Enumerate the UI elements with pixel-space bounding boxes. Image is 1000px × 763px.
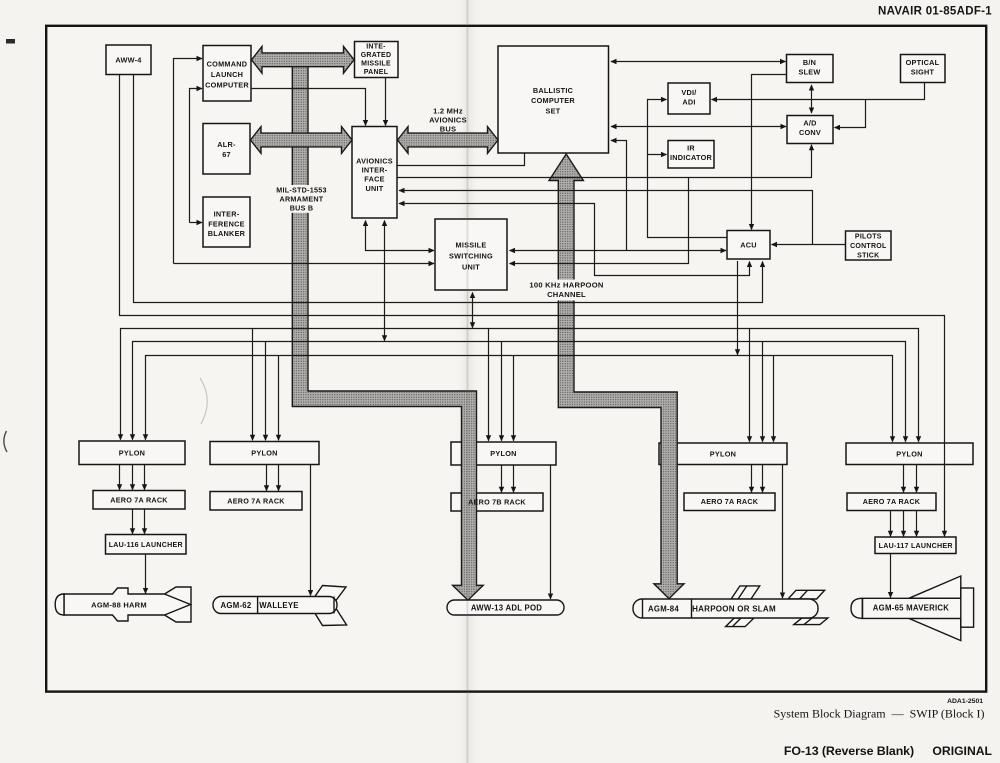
svg-text:CONV: CONV <box>799 128 821 137</box>
wire pylon4 to AGM-84 <box>782 465 784 598</box>
fold crease overlay <box>467 0 469 763</box>
wire L4 drop pylon3 <box>501 342 503 441</box>
wire VDI/ADI feed down to ACU left <box>648 100 728 238</box>
svg-text:NAVAIR 01-85ADF-1: NAVAIR 01-85ADF-1 <box>878 6 992 18</box>
svg-text:BUS B: BUS B <box>290 204 314 213</box>
svg-text:COMPUTER: COMPUTER <box>531 96 575 105</box>
svg-text:CHANNEL: CHANNEL <box>547 290 586 299</box>
wire BCS to A/D CONV <box>611 126 786 128</box>
bus 100 KHz HARPOON CHANNEL (BCS down, elbow to AGM-84) <box>549 154 684 599</box>
wire L5 drop pylon3 <box>513 356 515 441</box>
wire L4 pylon line <box>133 342 906 442</box>
svg-text:AERO 7A RACK: AERO 7A RACK <box>110 496 168 505</box>
svg-text:STICK: STICK <box>857 253 879 260</box>
svg-text:100 KHz HARPOON: 100 KHz HARPOON <box>529 281 603 290</box>
missile AGM-62 WALLEYE <box>213 586 347 626</box>
bus label gap 100 KHz HARPOON <box>557 280 575 301</box>
svg-text:FERENCE: FERENCE <box>208 219 245 228</box>
svg-text:COMPUTER: COMPUTER <box>205 81 249 90</box>
svg-text:PILOTS: PILOTS <box>855 234 882 241</box>
svg-text:ARMAMENT: ARMAMENT <box>280 195 324 204</box>
box INTERFERENCE BLANKER <box>203 197 250 247</box>
wire L3 drop pylon3 <box>488 329 490 441</box>
bus ALR-67 to AVIONICS INTERFACE UNIT <box>251 127 353 154</box>
wire B/N SLEW feed to ACU top <box>752 75 787 230</box>
bus CLC to INTEGRATED MISSILE PANEL (MIL-STD-1553 horizontal top) <box>252 46 355 73</box>
wire PCS junction to AIU <box>399 191 813 245</box>
wire L3 pylon line <box>121 329 919 442</box>
svg-text:COMMAND: COMMAND <box>207 60 248 69</box>
wire pylon2 to rack2 <box>266 465 268 491</box>
svg-text:AVIONICS: AVIONICS <box>429 116 467 125</box>
svg-text:OPTICAL: OPTICAL <box>906 58 940 67</box>
box INTEGRATED MISSILE PANEL <box>355 42 399 78</box>
svg-text:BLANKER: BLANKER <box>208 229 246 238</box>
wire LAU-116 to AGM-88 <box>145 555 147 594</box>
svg-text:LAU-116 LAUNCHER: LAU-116 LAUNCHER <box>109 541 183 549</box>
wire B/N SLEW to A/D CONV (double arrow) <box>811 85 813 113</box>
svg-text:BUS: BUS <box>440 124 457 133</box>
wire AIU to A/D CONV bottom <box>398 145 812 178</box>
svg-text:UNIT: UNIT <box>462 263 480 272</box>
box ACU <box>727 231 770 260</box>
svg-text:SIGHT: SIGHT <box>911 68 935 77</box>
svg-text:1.2 MHz: 1.2 MHz <box>433 107 463 116</box>
svg-text:INTER-: INTER- <box>362 166 388 175</box>
wire pylon4 to rack4 <box>751 465 753 492</box>
svg-text:MIL-STD-1553: MIL-STD-1553 <box>276 186 327 195</box>
svg-text:SWITCHING: SWITCHING <box>449 252 493 261</box>
svg-text:ADA1-2501: ADA1-2501 <box>947 698 983 705</box>
wire to CLC and MSU (vertical x=173) <box>174 59 203 264</box>
pod AWW-13 ADL POD <box>447 600 564 615</box>
bus 1.2 MHz AVIONICS BUS (AIU to BCS) <box>398 127 499 154</box>
wire L4 drop pylon2 <box>265 342 267 441</box>
box AERO 7A RACK 2 <box>210 492 302 511</box>
wire OPTICAL SIGHT to VDI/ADI <box>712 83 925 100</box>
wire L3 drop pylon4 <box>749 329 751 442</box>
wire L4 drop pylon4 <box>762 342 764 442</box>
wire to CLC (lower) and INTERFERENCE BLANKER <box>190 89 203 223</box>
missile AGM-88 HARM <box>55 587 191 622</box>
svg-text:HARPOON OR SLAM: HARPOON OR SLAM <box>692 605 776 614</box>
wire rack1 to LAU-116 (2 arrows) <box>132 510 134 534</box>
wire AIU to ACU bottom via 594 <box>399 204 750 276</box>
svg-text:PYLON: PYLON <box>119 449 145 458</box>
wire L2 AWW-4 left leg to LAU-117 <box>120 75 945 537</box>
svg-text:B/N: B/N <box>803 58 816 67</box>
svg-text:IR: IR <box>687 144 695 153</box>
wire pylon2 to AGM-62 WALLEYE <box>310 465 312 596</box>
bus MIL-STD-1553 ARMAMENT BUS B (vertical, elbow to AWW-13 ADL POD) <box>292 62 483 600</box>
svg-text:ORIGINAL: ORIGINAL <box>932 744 992 758</box>
svg-text:ACU: ACU <box>740 241 757 250</box>
svg-text:AGM-62: AGM-62 <box>221 601 252 610</box>
svg-text:INTE-: INTE- <box>366 44 386 51</box>
svg-text:SET: SET <box>546 107 561 116</box>
fold line / page crease <box>455 0 481 763</box>
scan artifact marks at left edge <box>6 39 15 44</box>
box B/N SLEW <box>787 55 834 83</box>
box AWW-4 <box>106 45 151 75</box>
box BALLISTIC COMPUTER SET <box>498 46 609 153</box>
box PYLON 3 <box>451 442 556 465</box>
wire AIU bottom left to MSU <box>366 221 435 251</box>
svg-text:MISSILE: MISSILE <box>456 241 487 250</box>
bus label gap MIL-STD-1553 <box>291 185 309 213</box>
svg-text:PYLON: PYLON <box>710 450 736 459</box>
wire MSU right lower up to AIU line <box>510 178 689 264</box>
wire MSU bottom double arrow <box>472 293 474 328</box>
svg-text:UNIT: UNIT <box>365 184 383 193</box>
wire L5 drop pylon2 <box>278 356 280 441</box>
wire LAU-117 to AGM-65 <box>890 554 892 598</box>
svg-text:ADI: ADI <box>682 98 695 107</box>
wire IMP bottom to AIU top <box>385 78 387 126</box>
box PYLON 4 <box>659 443 787 465</box>
svg-text:FO-13 (Reverse Blank): FO-13 (Reverse Blank) <box>784 744 914 758</box>
box OPTICAL SIGHT <box>901 55 946 83</box>
missile AGM-65 MAVERICK <box>851 576 974 641</box>
box AERO 7A RACK 1 <box>93 491 185 510</box>
missile AGM-84 HARPOON OR SLAM <box>633 586 828 627</box>
svg-text:67: 67 <box>222 150 231 159</box>
svg-text:GRATED: GRATED <box>361 52 392 59</box>
wire BCS to MSU right upper <box>611 141 627 251</box>
svg-text:AERO 7A RACK: AERO 7A RACK <box>701 497 759 506</box>
wire L3 drop pylon2 <box>252 329 254 441</box>
box PYLON 1 <box>79 441 185 465</box>
box AERO 7A RACK 4 <box>684 493 775 511</box>
svg-text:CONTROL: CONTROL <box>850 243 887 250</box>
box IR INDICATOR <box>668 141 714 169</box>
svg-text:AWW-4: AWW-4 <box>115 56 142 65</box>
svg-text:AWW-13 ADL POD: AWW-13 ADL POD <box>471 604 542 613</box>
box VDI/ADI <box>668 83 710 114</box>
box LAU-117 LAUNCHER <box>875 537 956 554</box>
svg-text:AGM-84: AGM-84 <box>648 605 679 614</box>
svg-text:AGM-88 HARM: AGM-88 HARM <box>91 601 147 610</box>
svg-text:AGM-65 MAVERICK: AGM-65 MAVERICK <box>873 604 950 613</box>
wire BCS bottom to AIU right (no arrows) <box>398 153 525 166</box>
svg-text:PANEL: PANEL <box>364 69 389 76</box>
svg-text:BALLISTIC: BALLISTIC <box>533 86 574 95</box>
scan artifact arc <box>200 378 207 424</box>
wire AIU bottom right down to L4 <box>384 221 386 341</box>
svg-text:INTER-: INTER- <box>214 210 240 219</box>
box LAU-116 LAUNCHER <box>106 535 187 555</box>
wire rack5 to LAU-117 (3 arrows) <box>890 511 892 536</box>
wire MSU to ACU <box>510 250 727 252</box>
box A/D CONV <box>787 116 833 144</box>
box PILOTS CONTROL STICK <box>846 231 892 260</box>
box COMMAND LAUNCH COMPUTER <box>203 46 251 102</box>
box PYLON 2 <box>210 442 319 465</box>
svg-text:LAUNCH: LAUNCH <box>211 70 243 79</box>
svg-text:AVIONICS: AVIONICS <box>356 156 393 165</box>
wire L1 AWW-4 right leg to ACU bottom <box>134 75 763 303</box>
wire into MSU left lower <box>174 263 435 265</box>
box PYLON 5 <box>846 443 973 465</box>
wire L5 pylon line <box>146 356 893 442</box>
svg-text:PYLON: PYLON <box>490 449 516 458</box>
svg-text:ALR-: ALR- <box>217 140 236 149</box>
wire L5 drop pylon4 <box>773 356 775 442</box>
wire OPTICAL SIGHT branch to A/D CONV <box>835 100 866 128</box>
svg-text:AERO 7B RACK: AERO 7B RACK <box>468 498 526 507</box>
svg-text:FACE: FACE <box>364 175 384 184</box>
box ALR-67 <box>203 124 250 175</box>
svg-text:PYLON: PYLON <box>251 449 277 458</box>
box MISSILE SWITCHING UNIT <box>435 219 507 290</box>
wire BCS to B/N SLEW <box>611 61 786 63</box>
svg-text:AERO 7A RACK: AERO 7A RACK <box>227 497 285 506</box>
wire pylon1 to rack1 (3 arrows) <box>119 465 121 490</box>
wire into INTERFERENCE BLANKER <box>190 222 203 224</box>
svg-text:A/D: A/D <box>803 119 816 128</box>
svg-text:AERO 7A RACK: AERO 7A RACK <box>863 497 921 506</box>
wire ACU bottom onto L5 <box>737 261 739 355</box>
svg-text:PYLON: PYLON <box>896 450 922 459</box>
svg-text:WALLEYE: WALLEYE <box>259 601 298 610</box>
wire into IR INDICATOR <box>648 154 667 156</box>
svg-text:VDI/: VDI/ <box>681 88 696 97</box>
box AERO 7A RACK 5 <box>847 493 936 511</box>
svg-text:System Block Diagram — SWIP: System Block Diagram — SWIP (Block I) <box>774 707 985 721</box>
svg-text:INDICATOR: INDICATOR <box>670 153 713 162</box>
wire PILOTS CONTROL STICK to ACU <box>772 244 846 246</box>
box AVIONICS INTERFACE UNIT <box>352 127 397 219</box>
svg-text:SLEW: SLEW <box>798 68 820 77</box>
svg-text:MISSILE: MISSILE <box>361 61 391 68</box>
wire pylon5 to rack5 <box>903 465 905 492</box>
wire CLC right to AIU top <box>251 89 366 126</box>
wire pylon3 to rack3 <box>501 466 503 493</box>
box AERO 7B RACK <box>451 493 543 511</box>
svg-text:LAU-117 LAUNCHER: LAU-117 LAUNCHER <box>879 542 953 550</box>
wire pylon3 to AWW-13 ADL POD <box>550 466 552 600</box>
